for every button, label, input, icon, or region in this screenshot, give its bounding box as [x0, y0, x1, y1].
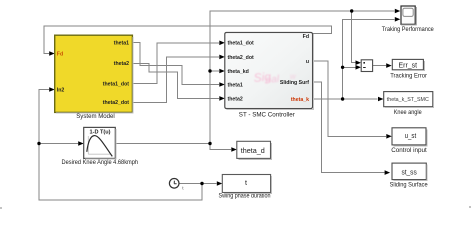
display shadows — [224, 61, 434, 193]
svg-text:Control input: Control input — [391, 147, 427, 154]
display theta_d — [237, 141, 271, 158]
arrow into theta1 — [219, 82, 225, 87]
speck bottom left — [0, 207, 2, 209]
svg-text:theta1_dot: theta1_dot — [103, 82, 130, 88]
svg-text:theta1: theta1 — [228, 82, 243, 88]
arrow into theta2 — [219, 96, 225, 101]
wire theta_k branch to sum minus input — [343, 66, 356, 68]
wire clock to t display — [179, 183, 216, 185]
svg-text:Tracking Error: Tracking Error — [390, 73, 428, 80]
svg-text:1-D T(u): 1-D T(u) — [90, 130, 111, 136]
arrow into sum plus — [356, 60, 362, 65]
wire Sliding Surf output to st_ss — [313, 82, 385, 173]
wire u output to u_st — [313, 61, 387, 136]
arrow into t display — [217, 181, 223, 186]
node clock junction — [200, 182, 203, 185]
arrow into theta1_dot — [219, 41, 225, 46]
display Err_st (Tracking Error) — [390, 59, 428, 79]
scope Traking Performance — [382, 6, 434, 33]
to-workspace u_st (Control input) — [391, 128, 427, 154]
arrow into sum minus — [356, 65, 362, 70]
svg-text:theta2: theta2 — [114, 61, 129, 67]
subsystem shadows — [56, 34, 313, 159]
wire theta_d drop to sum plus input — [352, 11, 356, 63]
arrow into st_ss — [385, 170, 391, 175]
sum (tracking error) — [361, 60, 372, 72]
arrow into Fd — [49, 51, 55, 56]
svg-text:Fd: Fd — [303, 34, 309, 40]
wire sum output to Err_st — [373, 65, 386, 67]
svg-text:theta1_dot: theta1_dot — [228, 41, 255, 47]
svg-text:theta1: theta1 — [114, 40, 129, 46]
clock — [169, 179, 184, 192]
node theta_k sum junction — [341, 66, 344, 69]
svg-text:theta_d: theta_d — [241, 146, 265, 155]
wire theta_d to display block — [210, 144, 231, 150]
wire time to In2 (bottom loop) — [39, 90, 202, 201]
svg-text:ST - SMC Controller: ST - SMC Controller — [239, 111, 296, 118]
svg-text:u: u — [306, 59, 309, 65]
svg-text:nal: nal — [265, 74, 280, 86]
svg-text:st_ss: st_ss — [401, 168, 417, 177]
svg-text:t: t — [245, 178, 247, 187]
arrow into scope input2 — [395, 17, 401, 22]
svg-text:System Model: System Model — [76, 113, 115, 120]
node theta_d top junction — [350, 9, 353, 12]
to-workspace st_ss (Sliding Surface) — [390, 163, 428, 188]
svg-text:theta2: theta2 — [228, 96, 243, 102]
svg-text:u_st: u_st — [405, 131, 417, 140]
svg-text:Traking Performance: Traking Performance — [382, 26, 434, 33]
svg-text:Knee angle: Knee angle — [394, 109, 422, 116]
display t (Swing phase duration) — [219, 175, 271, 200]
wire theta_k output to Knee angle block — [313, 98, 378, 100]
svg-text:theta_kd: theta_kd — [228, 69, 249, 75]
lookup table Desired Knee Angle — [62, 127, 139, 166]
svg-text:Desired Knee Angle 4.68kmph: Desired Knee Angle 4.68kmph — [62, 159, 139, 166]
wire theta2 to controller theta2 — [132, 63, 219, 98]
subsystem System Model — [55, 35, 133, 120]
watermark (faint pink) — [253, 70, 297, 86]
arrow into theta2_dot — [219, 55, 225, 60]
node time-lookup junction — [37, 142, 40, 145]
arrow into Knee angle block — [378, 97, 384, 102]
arrow into u_st — [386, 134, 392, 139]
node theta_k junction — [341, 97, 344, 100]
svg-text:theta2_dot: theta2_dot — [228, 55, 255, 61]
speck bottom right — [469, 206, 471, 208]
node theta_kd junction — [208, 69, 211, 72]
wire theta_d to theta_kd input — [210, 70, 219, 72]
arrow into Err_st — [386, 63, 392, 68]
to-workspace theta_k_ST_SMC (Knee angle) — [384, 92, 433, 116]
arrow into theta_kd — [219, 69, 225, 74]
svg-text:Fd: Fd — [57, 51, 63, 57]
wire lookup output to node theta_d — [115, 143, 210, 145]
arrow into theta_d display — [231, 147, 237, 152]
svg-text:In2: In2 — [57, 88, 65, 94]
svg-text:Sliding Surface: Sliding Surface — [390, 182, 428, 189]
wire theta1 to controller theta1 — [132, 42, 219, 84]
wire theta_k riser to scope input 2 — [343, 19, 395, 99]
wire theta1_dot to controller theta1_dot — [132, 43, 219, 84]
wire theta_d riser to scope input 1 — [210, 11, 395, 144]
svg-text:Err_st: Err_st — [399, 60, 418, 69]
wire time branch to lookup table input — [39, 143, 78, 145]
arrow into scope input1 — [395, 9, 401, 14]
arrowheads — [49, 9, 400, 186]
wire theta2_dot to controller theta2_dot — [132, 57, 219, 102]
wire Fd feedback: controller Fd output to System Model Fd input — [44, 26, 332, 54]
node theta_d lookup junction — [208, 142, 211, 145]
subsystem ST - SMC Controller — [225, 33, 313, 119]
svg-text:theta_k_ST_SMC: theta_k_ST_SMC — [387, 97, 429, 103]
svg-text:theta_k: theta_k — [291, 97, 309, 103]
svg-text:theta2_dot: theta2_dot — [103, 100, 130, 106]
arrow into lookup table — [78, 141, 84, 146]
arrow into In2 — [49, 87, 55, 92]
